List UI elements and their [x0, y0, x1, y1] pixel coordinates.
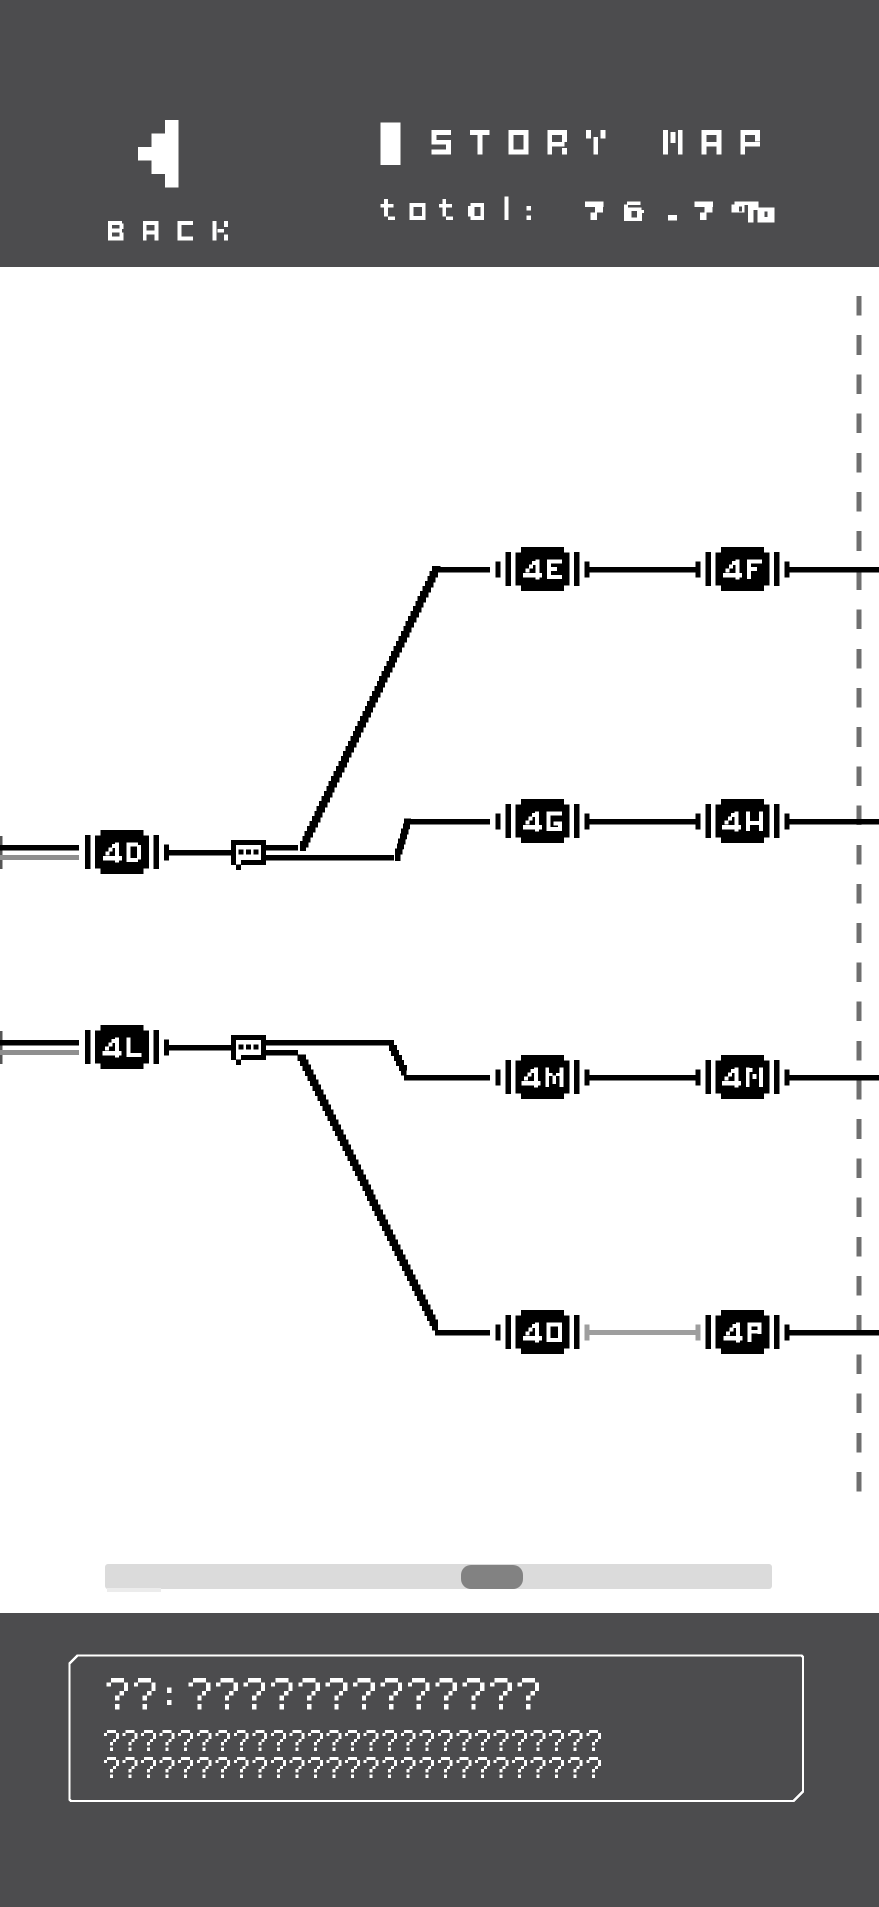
info box border [70, 1656, 804, 1802]
diagonal up to 4E row [300, 566, 441, 851]
76.7% value [585, 202, 775, 223]
node 4D [85, 830, 169, 874]
header bar [0, 0, 879, 267]
stair down to 4M row [389, 1045, 407, 1076]
edge tick left of 4D [0, 836, 3, 869]
unknown line 2 [104, 1757, 601, 1778]
node 4G [496, 799, 590, 843]
unknown title ??:? [107, 1678, 540, 1709]
choice bubble of 4L [231, 1035, 266, 1065]
wire into 4M [404, 1075, 490, 1081]
wire 4L to bubble [166, 1045, 231, 1051]
node 4N [696, 1055, 790, 1099]
scrollbar track [105, 1564, 772, 1589]
wire into 4E [435, 567, 490, 573]
stair up to 4G row [395, 819, 411, 862]
wire into 4D (gray) [0, 855, 79, 860]
diagonal down to 4O row [298, 1055, 439, 1331]
wire 4E-4F [589, 567, 696, 573]
edge tick left of 4L [0, 1031, 3, 1064]
wire into 4O [435, 1330, 490, 1336]
node 4M [496, 1055, 590, 1099]
node 4E [496, 547, 590, 591]
wire into 4L (black) [0, 1040, 79, 1046]
total: label [381, 197, 532, 221]
wire 4O-4P (gray, unvisited) [589, 1330, 696, 1335]
back icon [138, 120, 179, 188]
BACK label [108, 221, 228, 241]
node 4O [496, 1310, 590, 1354]
scrollbar thumb [461, 1565, 523, 1589]
STORY MAP title [432, 130, 760, 155]
wire 4H-right edge [789, 819, 879, 825]
node 4P [696, 1310, 790, 1354]
wire into 4G [404, 819, 490, 825]
wire 4P-right edge [789, 1330, 879, 1336]
wire 4M-4N [589, 1075, 696, 1081]
choice bubble of 4D [231, 840, 266, 870]
node 4H [696, 799, 790, 843]
wire into 4L (gray) [0, 1050, 79, 1055]
dashed guide line [857, 296, 862, 1493]
wire bubble lower stub [266, 1050, 298, 1056]
wire 4F-right edge [789, 567, 879, 573]
node 4L [85, 1025, 169, 1069]
wire into 4D (black) [0, 845, 79, 851]
scrollbar shadow remnant [107, 1588, 161, 1592]
node 4F [696, 547, 790, 591]
wire 4G-4H [589, 819, 696, 825]
wire 4D to bubble [166, 850, 231, 856]
footer bar [0, 1613, 879, 1907]
wire bubble lower stub [266, 855, 394, 861]
wire bubble upper stub to 4M [266, 1040, 394, 1046]
unknown line 1 [104, 1730, 601, 1751]
wire 4N-right edge [789, 1075, 879, 1081]
title cursor [381, 123, 401, 166]
story map canvas [0, 267, 879, 1613]
wire bubble upper stub [266, 845, 298, 851]
